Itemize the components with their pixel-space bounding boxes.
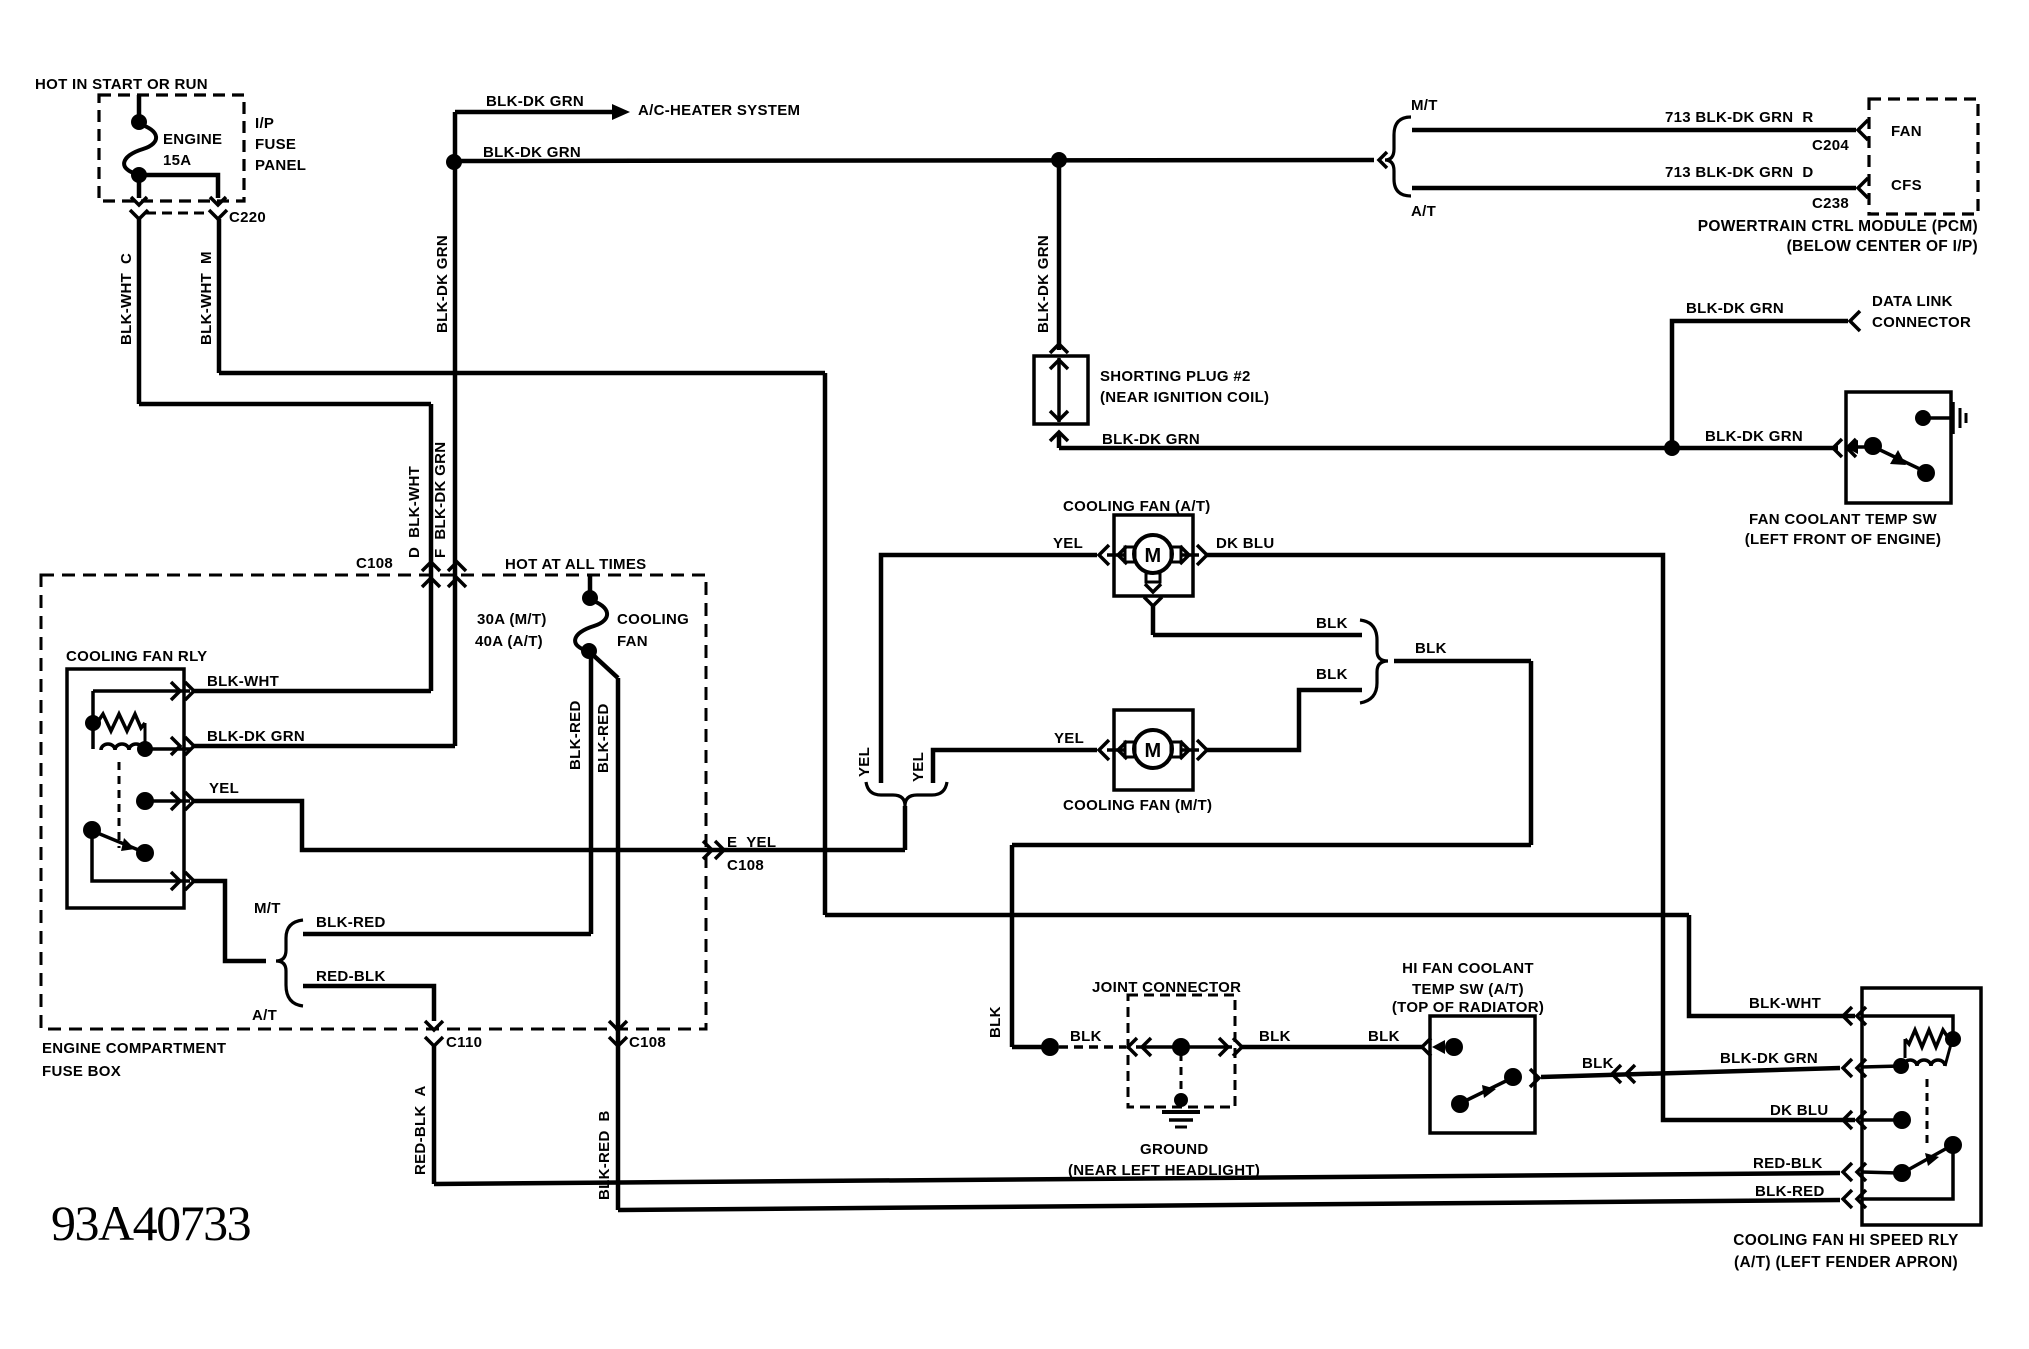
svg-text:BLK-RED: BLK-RED bbox=[316, 914, 386, 931]
hs rly coil inductor bbox=[1893, 1044, 1951, 1074]
wire below shorting plug bbox=[1057, 432, 1062, 448]
connector C108 chevron F bbox=[448, 562, 466, 587]
shorting plug internal arrows bbox=[1050, 358, 1068, 422]
label DK BLU bbox=[1216, 535, 1274, 552]
node junction BLK-DK GRN left bbox=[446, 154, 462, 170]
label YEL rly bbox=[209, 780, 239, 797]
node BLK splice bbox=[1041, 1038, 1059, 1056]
joint connector chevrons right bbox=[1219, 1038, 1242, 1056]
hs rly dashed link bbox=[1926, 1079, 1929, 1143]
label 30A 40A bbox=[475, 611, 547, 650]
wire BLK-RED right vertical bbox=[616, 678, 621, 1210]
label HOT AT ALL TIMES bbox=[505, 556, 646, 573]
cooling fan MT right chevrons bbox=[1180, 740, 1207, 760]
label BLK-WHT rly bbox=[207, 673, 279, 690]
svg-text:FAN COOLANT TEMP SW: FAN COOLANT TEMP SW bbox=[1749, 511, 1937, 528]
brace BLK merge bbox=[1360, 620, 1388, 703]
svg-text:CONNECTOR: CONNECTOR bbox=[1872, 314, 1971, 331]
temp sw ground contact bbox=[1915, 410, 1950, 426]
label CFS pin bbox=[1891, 177, 1922, 194]
label C110 bbox=[446, 1034, 482, 1051]
svg-text:C238: C238 bbox=[1812, 195, 1849, 212]
svg-text:(TOP OF RADIATOR): (TOP OF RADIATOR) bbox=[1392, 999, 1544, 1016]
svg-text:HI FAN COOLANT: HI FAN COOLANT bbox=[1402, 960, 1534, 977]
wire BLK down bbox=[1529, 661, 1534, 845]
svg-text:HOT IN START OR RUN: HOT IN START OR RUN bbox=[35, 76, 208, 93]
label RED-BLK A bbox=[412, 1085, 429, 1175]
arrow A/C heater bbox=[612, 104, 630, 120]
svg-text:(BELOW CENTER OF I/P): (BELOW CENTER OF I/P) bbox=[1787, 238, 1978, 255]
svg-text:C108: C108 bbox=[356, 555, 393, 572]
svg-text:YEL: YEL bbox=[1053, 535, 1083, 552]
svg-text:FUSE BOX: FUSE BOX bbox=[42, 1063, 121, 1080]
wire BLK-WHT C horizontal bbox=[139, 402, 431, 407]
wire BLK-WHT C down bbox=[137, 219, 142, 404]
connector C108 chevron D bbox=[422, 562, 440, 587]
svg-text:15A: 15A bbox=[163, 152, 191, 169]
label BLK right bbox=[1368, 1028, 1400, 1045]
label BLK-RED hs bbox=[1755, 1183, 1825, 1200]
connector E C108 chevrons bbox=[703, 841, 724, 859]
svg-text:ENGINE COMPARTMENT: ENGINE COMPARTMENT bbox=[42, 1040, 226, 1057]
svg-text:BLK-DK GRN: BLK-DK GRN bbox=[1035, 235, 1052, 333]
label YEL vert left bbox=[856, 747, 873, 777]
cooling fan AT right chevrons bbox=[1180, 545, 1207, 565]
wire BLK to hi fan temp sw bbox=[1242, 1045, 1424, 1050]
hi fan temp sw output chevron bbox=[1530, 1069, 1539, 1087]
wire BLK-WHT M horizontal low bbox=[825, 913, 1689, 918]
svg-text:TEMP SW (A/T): TEMP SW (A/T) bbox=[1412, 981, 1524, 998]
label NEAR LEFT HEADLIGHT bbox=[1068, 1162, 1260, 1179]
wire BLK-RED bottom bbox=[618, 1200, 1840, 1210]
label BLK-DK GRN hi speed bbox=[1720, 1050, 1818, 1067]
svg-text:A/T: A/T bbox=[1411, 203, 1436, 220]
PCM dashed box bbox=[1869, 99, 1978, 214]
wire BLK-DK GRN to relay bbox=[194, 744, 455, 749]
label HI FAN COOLANT bbox=[1402, 960, 1534, 977]
wire BLK dashed bbox=[1059, 1045, 1126, 1049]
rly coil resistor bbox=[85, 714, 145, 742]
cooling fan MT box bbox=[1114, 710, 1193, 790]
label BLK-DK GRN below plug bbox=[1102, 431, 1200, 448]
label JOINT CONNECTOR bbox=[1092, 979, 1241, 996]
svg-text:BLK-DK GRN: BLK-DK GRN bbox=[483, 144, 581, 161]
hi speed rly chevrons RED-BLK bbox=[1843, 1163, 1866, 1181]
connector C220 arrow C bbox=[130, 197, 148, 219]
label C204 bbox=[1812, 137, 1849, 154]
hi fan coolant temp sw box bbox=[1430, 1016, 1535, 1133]
svg-text:BLK-WHT M: BLK-WHT M bbox=[198, 251, 215, 345]
label BLK-RED split bbox=[316, 914, 386, 931]
wire hot at all times lead bbox=[588, 575, 593, 598]
svg-text:40A (A/T): 40A (A/T) bbox=[475, 633, 543, 650]
svg-text:HOT AT ALL TIMES: HOT AT ALL TIMES bbox=[505, 556, 646, 573]
svg-text:M: M bbox=[1145, 740, 1162, 762]
chevron above shorting plug bbox=[1050, 344, 1068, 353]
hs rly BLK-DK GRN wire bbox=[1862, 1066, 1901, 1067]
label BLK-DK GRN vert bbox=[434, 235, 451, 333]
wire 713 BLK-DK GRN D bbox=[1412, 186, 1856, 191]
node joint connector bbox=[1172, 1038, 1190, 1056]
shorting plug box bbox=[1034, 356, 1088, 424]
svg-text:713 BLK-DK GRN D: 713 BLK-DK GRN D bbox=[1665, 164, 1813, 181]
wire DK BLU bbox=[1207, 555, 1855, 1120]
svg-text:FAN: FAN bbox=[1891, 123, 1922, 140]
cooling fan AT box bbox=[1114, 515, 1193, 596]
connector C110 arrows bbox=[425, 1021, 443, 1046]
label C238 bbox=[1812, 195, 1849, 212]
svg-text:COOLING: COOLING bbox=[617, 611, 689, 628]
label DATA LINK CONNECTOR bbox=[1872, 293, 1971, 331]
svg-text:YEL: YEL bbox=[1054, 730, 1084, 747]
label pin C BLK-WHT bbox=[118, 253, 135, 345]
wire YEL to motor MT bbox=[933, 750, 1097, 783]
fuse COOLING FAN 30A 40A bbox=[575, 590, 607, 659]
cooling fan MT motor bbox=[1125, 730, 1181, 768]
svg-text:FUSE: FUSE bbox=[255, 136, 296, 153]
label C220 bbox=[229, 209, 266, 226]
svg-text:BLK-DK GRN: BLK-DK GRN bbox=[1102, 431, 1200, 448]
svg-text:M/T: M/T bbox=[254, 900, 281, 917]
connector temp sw chevrons bbox=[1833, 439, 1856, 457]
wire BLK-WHT M to hi speed rly bbox=[1689, 915, 1855, 1016]
hs rly switch out bbox=[1862, 1147, 1953, 1199]
wire BLK-WHT D down to C108 bbox=[429, 404, 434, 691]
wire BLK-RED left bbox=[589, 651, 594, 934]
svg-text:30A (M/T): 30A (M/T) bbox=[477, 611, 547, 628]
svg-text:M/T: M/T bbox=[1411, 97, 1438, 114]
wire BLK-DK GRN main horizontal bbox=[454, 160, 1374, 161]
label A/T split bbox=[252, 1007, 277, 1024]
svg-text:CFS: CFS bbox=[1891, 177, 1922, 194]
wire BLK-RED diagonal bbox=[592, 654, 618, 678]
svg-text:BLK-WHT: BLK-WHT bbox=[207, 673, 279, 690]
chevron below shorting plug bbox=[1050, 432, 1068, 441]
wire 713 BLK-DK GRN R bbox=[1412, 128, 1856, 133]
svg-text:(A/T) (LEFT FENDER APRON): (A/T) (LEFT FENDER APRON) bbox=[1734, 1254, 1958, 1271]
svg-text:DK BLU: DK BLU bbox=[1216, 535, 1274, 552]
inline connector chevrons BLK-DK GRN bbox=[1612, 1065, 1635, 1083]
wire up to data link bbox=[1672, 321, 1848, 448]
label BLK after temp sw bbox=[1582, 1055, 1614, 1072]
hi fan temp sw fixed contact bbox=[1445, 1038, 1463, 1056]
svg-text:YEL: YEL bbox=[856, 747, 873, 777]
svg-text:I/P: I/P bbox=[255, 115, 274, 132]
fuse ENGINE 15A bbox=[124, 114, 156, 183]
wire RED-BLK AT bbox=[303, 986, 434, 1021]
svg-text:COOLING FAN (M/T): COOLING FAN (M/T) bbox=[1063, 797, 1212, 814]
rly pin chevrons BLK-WHT bbox=[171, 682, 194, 700]
label ENGINE 15A bbox=[163, 131, 222, 169]
svg-text:DATA LINK: DATA LINK bbox=[1872, 293, 1953, 310]
svg-text:GROUND: GROUND bbox=[1140, 1141, 1208, 1158]
wire BLK-WHT M down bbox=[217, 219, 222, 373]
svg-text:YEL: YEL bbox=[209, 780, 239, 797]
label FAN COOLANT TEMP SW bbox=[1749, 511, 1937, 528]
label M/T top bbox=[1411, 97, 1438, 114]
I/P fuse panel dashed box bbox=[99, 95, 244, 201]
label C108 top bbox=[356, 555, 393, 572]
label 713 BLK-DK GRN D bbox=[1665, 164, 1813, 181]
label RED-BLK split bbox=[316, 968, 386, 985]
wire YEL from relay bbox=[194, 801, 905, 850]
label BLK-DK GRN ac bbox=[486, 93, 584, 110]
connector C220 dashed line bbox=[146, 212, 210, 215]
wire BLK-WHT M vertical mid bbox=[823, 373, 828, 915]
hs rly coil top wire bbox=[1862, 1016, 1953, 1036]
svg-text:BLK-DK GRN: BLK-DK GRN bbox=[1720, 1050, 1818, 1067]
hs rly switch common bbox=[1862, 1164, 1911, 1182]
svg-text:SHORTING PLUG #2: SHORTING PLUG #2 bbox=[1100, 368, 1251, 385]
label M/T split bbox=[254, 900, 281, 917]
connector data link chevron bbox=[1850, 311, 1860, 331]
svg-text:713 BLK-DK GRN R: 713 BLK-DK GRN R bbox=[1665, 109, 1813, 126]
label ENGINE COMPARTMENT FUSE BOX bbox=[42, 1040, 226, 1080]
wire dashed to ground bbox=[1180, 1053, 1183, 1098]
label SHORTING PLUG 2 bbox=[1100, 368, 1269, 406]
svg-text:BLK: BLK bbox=[1415, 640, 1447, 657]
svg-text:JOINT CONNECTOR: JOINT CONNECTOR bbox=[1092, 979, 1241, 996]
wire BLK temp sw to relay bbox=[1541, 1068, 1840, 1077]
label pin M BLK-WHT bbox=[198, 251, 215, 345]
label 713 BLK-DK GRN R bbox=[1665, 109, 1813, 126]
label COOLING FAN (A/T) bbox=[1063, 498, 1211, 515]
wire BLK left bbox=[1012, 843, 1531, 848]
svg-text:C204: C204 bbox=[1812, 137, 1849, 154]
rly pin chevrons out bbox=[171, 872, 194, 890]
svg-text:(NEAR IGNITION COIL): (NEAR IGNITION COIL) bbox=[1100, 389, 1269, 406]
wire YEL to motor AT bbox=[881, 555, 1097, 783]
svg-text:C108: C108 bbox=[727, 857, 764, 874]
node junction at shorting plug drop bbox=[1051, 152, 1067, 168]
hi speed rly chevrons DK BLU bbox=[1843, 1111, 1866, 1129]
ground near left headlight bbox=[1162, 1093, 1200, 1127]
label POWERTRAIN CTRL MODULE bbox=[1698, 218, 1978, 235]
svg-text:BLK-RED: BLK-RED bbox=[567, 700, 584, 770]
svg-text:RED-BLK: RED-BLK bbox=[1753, 1155, 1823, 1172]
label I/P FUSE PANEL bbox=[255, 115, 306, 174]
rly switch out wire bbox=[92, 832, 190, 881]
node junction data link bbox=[1664, 440, 1680, 456]
hi speed rly chevrons BLK-WHT bbox=[1843, 1007, 1866, 1025]
brace YEL bbox=[866, 782, 947, 806]
rly pin chevrons YEL bbox=[171, 792, 194, 810]
wire motor AT ground bbox=[1151, 606, 1156, 635]
wire to A/C heater bbox=[455, 110, 614, 115]
fan coolant temp sw box bbox=[1846, 392, 1951, 503]
label BLK lower bbox=[1316, 666, 1348, 683]
label BLK merged bbox=[1415, 640, 1447, 657]
label YEL vert right bbox=[910, 752, 927, 782]
svg-text:BLK-DK GRN: BLK-DK GRN bbox=[486, 93, 584, 110]
svg-text:E YEL: E YEL bbox=[727, 834, 776, 851]
wire BLK from motor AT bbox=[1153, 633, 1362, 638]
connector C238 chevron bbox=[1858, 178, 1868, 198]
svg-text:BLK-RED B: BLK-RED B bbox=[596, 1110, 613, 1200]
cooling fan MT left chevrons bbox=[1099, 740, 1127, 760]
svg-text:COOLING FAN HI SPEED RLY: COOLING FAN HI SPEED RLY bbox=[1733, 1232, 1959, 1249]
brace MT AT split bbox=[276, 920, 303, 1006]
hi speed rly chevrons BLK-RED bbox=[1843, 1190, 1866, 1208]
wire joint connector internal bbox=[1136, 1045, 1232, 1049]
svg-text:BLK: BLK bbox=[1582, 1055, 1614, 1072]
rly coil wire to pin bbox=[145, 747, 190, 751]
label 93A40733 bbox=[51, 1195, 251, 1251]
label YEL at motor AT bbox=[1053, 535, 1083, 552]
label BLK-RED vert right bbox=[595, 703, 612, 773]
svg-text:POWERTRAIN CTRL MODULE (PCM): POWERTRAIN CTRL MODULE (PCM) bbox=[1698, 218, 1978, 235]
brace M/T A/T bbox=[1385, 117, 1411, 196]
svg-text:COOLING FAN (A/T): COOLING FAN (A/T) bbox=[1063, 498, 1211, 515]
engine compartment dashed box bbox=[41, 575, 706, 1029]
wire BLK to joint connector bbox=[1012, 1045, 1050, 1050]
svg-text:BLK: BLK bbox=[987, 1006, 1004, 1038]
cooling fan rly box bbox=[67, 669, 184, 908]
svg-text:YEL: YEL bbox=[910, 752, 927, 782]
label A/C-HEATER SYSTEM bbox=[638, 102, 800, 119]
wire BLK from motor MT bbox=[1207, 690, 1362, 750]
svg-text:DK BLU: DK BLU bbox=[1770, 1102, 1828, 1119]
label BLK upper bbox=[1316, 615, 1348, 632]
svg-text:A/T: A/T bbox=[252, 1007, 277, 1024]
svg-text:BLK: BLK bbox=[1070, 1028, 1102, 1045]
hi fan temp sw lever bbox=[1451, 1068, 1522, 1113]
label E YEL bbox=[727, 834, 776, 851]
label GROUND bbox=[1140, 1141, 1208, 1158]
temp sw input arrow bbox=[1845, 440, 1866, 454]
svg-text:A/C-HEATER SYSTEM: A/C-HEATER SYSTEM bbox=[638, 102, 800, 119]
label BLK vert bbox=[987, 1006, 1004, 1038]
hi speed rly chevrons BLK-DK GRN bbox=[1843, 1059, 1866, 1077]
label LEFT FRONT OF ENGINE bbox=[1745, 531, 1942, 548]
svg-text:BLK-DK GRN: BLK-DK GRN bbox=[1686, 300, 1784, 317]
svg-text:C220: C220 bbox=[229, 209, 266, 226]
svg-text:BLK-DK GRN: BLK-DK GRN bbox=[434, 235, 451, 333]
label C108 bottom bbox=[629, 1034, 666, 1051]
svg-text:BLK-RED: BLK-RED bbox=[1755, 1183, 1825, 1200]
svg-text:BLK-RED: BLK-RED bbox=[595, 703, 612, 773]
svg-text:COOLING FAN RLY: COOLING FAN RLY bbox=[66, 648, 207, 665]
rly coil left vertical bbox=[91, 691, 95, 749]
svg-text:D BLK-WHT: D BLK-WHT bbox=[406, 466, 423, 558]
temp sw lever bbox=[1876, 448, 1935, 482]
label COOLING FAN (M/T) bbox=[1063, 797, 1212, 814]
rly dashed link bbox=[118, 762, 121, 848]
label DK BLU rly bbox=[1770, 1102, 1828, 1119]
label HOT IN START OR RUN bbox=[35, 76, 208, 93]
svg-text:BLK-DK GRN: BLK-DK GRN bbox=[1705, 428, 1803, 445]
svg-text:PANEL: PANEL bbox=[255, 157, 306, 174]
wire RED-BLK A down bbox=[432, 1046, 437, 1184]
label BLK-RED vert left bbox=[567, 700, 584, 770]
label A/T bottom bbox=[1411, 203, 1436, 220]
tick chevron before brace bbox=[1379, 152, 1387, 168]
connector hi fan temp sw chevron bbox=[1422, 1038, 1431, 1056]
label BLK-DK GRN rly bbox=[207, 728, 305, 745]
wire fuse top lead bbox=[137, 95, 142, 122]
joint connector chevrons left bbox=[1128, 1038, 1151, 1056]
svg-text:M: M bbox=[1145, 545, 1162, 567]
rly coil inductor bbox=[101, 741, 153, 757]
label AT LEFT FENDER APRON bbox=[1734, 1254, 1958, 1271]
cooling fan AT left chevrons bbox=[1099, 545, 1127, 565]
cooling fan AT ground arrow bbox=[1144, 584, 1162, 606]
svg-text:BLK-WHT C: BLK-WHT C bbox=[118, 253, 135, 345]
connector C204 chevron bbox=[1858, 120, 1868, 140]
wire rly out down bbox=[194, 881, 266, 961]
hs rly DK BLU contact bbox=[1862, 1111, 1911, 1129]
svg-text:FAN: FAN bbox=[617, 633, 648, 650]
label TOP OF RADIATOR bbox=[1392, 999, 1544, 1016]
svg-text:BLK: BLK bbox=[1316, 615, 1348, 632]
svg-text:RED-BLK A: RED-BLK A bbox=[412, 1085, 429, 1175]
label BLK-RED B bbox=[596, 1110, 613, 1200]
svg-text:RED-BLK: RED-BLK bbox=[316, 968, 386, 985]
label BLK-DK GRN temp sw bbox=[1705, 428, 1803, 445]
connector C220 arrow M bbox=[209, 197, 227, 219]
rly switch arm bbox=[83, 821, 154, 862]
svg-text:BLK: BLK bbox=[1316, 666, 1348, 683]
rly coil wire top bbox=[93, 689, 190, 693]
label pin D BLK-WHT bbox=[406, 466, 423, 558]
temp sw pivot contact bbox=[1864, 437, 1882, 455]
svg-text:C108: C108 bbox=[629, 1034, 666, 1051]
label COOLING FAN RLY bbox=[66, 648, 207, 665]
label BELOW CENTER OF I/P bbox=[1787, 238, 1978, 255]
wire BLK-DK GRN vertical F bbox=[453, 112, 458, 746]
wire fuse output to pin C bbox=[137, 175, 142, 198]
label BLK-DK GRN main bbox=[483, 144, 581, 161]
label BLK left of joint bbox=[1070, 1028, 1102, 1045]
label C108 mid bbox=[727, 857, 764, 874]
hi fan temp sw input arrow bbox=[1432, 1040, 1445, 1054]
hi speed rly box bbox=[1862, 988, 1981, 1225]
rly pin chevrons BLK-DK GRN bbox=[171, 737, 194, 755]
wire BLK down to joint conn bbox=[1010, 845, 1015, 1047]
wire BLK right bbox=[1394, 659, 1531, 664]
svg-text:BLK: BLK bbox=[1368, 1028, 1400, 1045]
label BLK mid bbox=[1259, 1028, 1291, 1045]
svg-text:C110: C110 bbox=[446, 1034, 482, 1051]
svg-text:BLK-DK GRN: BLK-DK GRN bbox=[207, 728, 305, 745]
label COOLING FAN HI SPEED RLY bbox=[1733, 1232, 1959, 1249]
label TEMP SW (A/T) bbox=[1412, 981, 1524, 998]
wire BLK-WHT to relay bbox=[194, 689, 431, 694]
hs rly coil resistor bbox=[1905, 1030, 1961, 1058]
wire YEL up to brace bbox=[903, 806, 908, 850]
wire fuse output to pin M bbox=[139, 175, 218, 198]
wire BLK-DK GRN to temp sw bbox=[1059, 446, 1838, 451]
svg-text:ENGINE: ENGINE bbox=[163, 131, 222, 148]
joint connector dashed box bbox=[1128, 995, 1235, 1107]
svg-text:93A40733: 93A40733 bbox=[51, 1195, 251, 1251]
label COOLING FAN fuse bbox=[617, 611, 689, 650]
svg-text:F BLK-DK GRN: F BLK-DK GRN bbox=[432, 442, 449, 558]
hs rly switch arm bbox=[1906, 1136, 1962, 1171]
connector C108 bottom arrows bbox=[609, 1021, 627, 1046]
wire RED-BLK bottom bbox=[434, 1173, 1840, 1184]
cooling fan AT motor bbox=[1125, 535, 1181, 582]
label BLK-DK GRN data link bbox=[1686, 300, 1784, 317]
wire BLK-RED MT bbox=[303, 932, 591, 937]
label YEL at motor MT bbox=[1054, 730, 1084, 747]
wire BLK-WHT M horizontal bbox=[219, 371, 825, 376]
label BLK-DK GRN drop bbox=[1035, 235, 1052, 333]
svg-text:(LEFT FRONT OF ENGINE): (LEFT FRONT OF ENGINE) bbox=[1745, 531, 1942, 548]
rly switch common bbox=[136, 792, 190, 810]
label pin F BLK-DK GRN bbox=[432, 442, 449, 558]
label FAN pin bbox=[1891, 123, 1922, 140]
